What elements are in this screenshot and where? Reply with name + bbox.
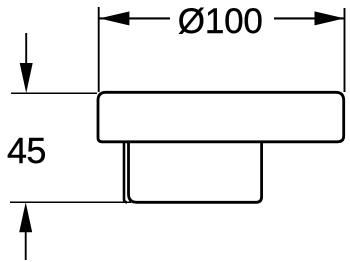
dimension line Ø100 left segment — [99, 17, 170, 19]
arrowhead right (points right) — [315, 11, 345, 25]
soap dish (top wide body) — [98, 92, 344, 142]
holder base outline (inner-left edge, bottom, right edge) — [129, 142, 262, 202]
extension line left (diameter dimension) — [98, 7, 100, 92]
holder base outer-left contour line — [124, 142, 127, 202]
arrowhead up (points up) — [19, 202, 32, 232]
arrowhead down (points down) — [20, 63, 33, 93]
height dimension upper shaft — [25, 33, 27, 64]
height dimension lower shaft — [25, 231, 27, 260]
svg-text:45: 45 — [7, 130, 46, 171]
extension line bottom (height dimension) — [10, 201, 131, 203]
extension line right (diameter dimension) — [344, 8, 346, 92]
svg-text:Ø100: Ø100 — [178, 2, 263, 41]
arrowhead left (points left) — [99, 11, 129, 25]
dimension line Ø100 right segment — [274, 17, 345, 19]
extension line top (height dimension) — [11, 92, 97, 94]
